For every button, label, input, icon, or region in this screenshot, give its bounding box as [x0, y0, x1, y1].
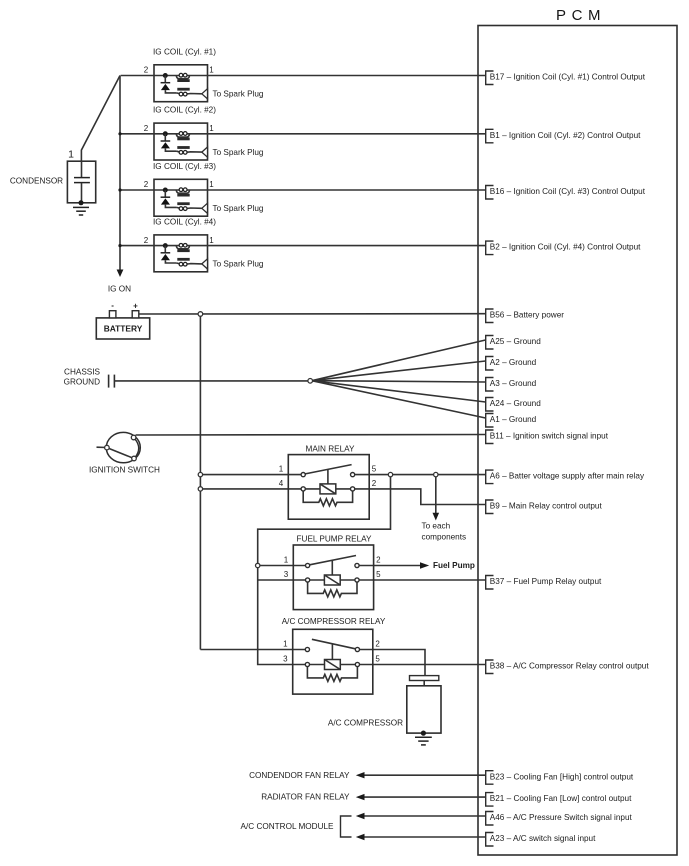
wire: B23 to condendor fan relay — [363, 774, 486, 776]
svg-text:IG COIL (Cyl. #4): IG COIL (Cyl. #4) — [153, 217, 216, 226]
svg-text:2: 2 — [372, 479, 377, 488]
PCM pin A25 — [486, 336, 542, 350]
PCM pin B23 — [486, 771, 634, 785]
battery box — [96, 318, 149, 339]
svg-text:A/C COMPRESSOR: A/C COMPRESSOR — [328, 719, 403, 728]
A/C compressor relay contact blade — [312, 639, 356, 649]
junction on ignition bus — [118, 244, 121, 247]
ignition coil IG COIL (Cyl. #1) with wire to PCM pin — [121, 65, 486, 102]
ignition switch — [97, 446, 107, 448]
wire: A46 from A/C control module — [363, 815, 486, 817]
svg-text:IG COIL (Cyl. #3): IG COIL (Cyl. #3) — [153, 162, 216, 171]
fuel pump relay box — [293, 545, 373, 610]
wire: ignition feed bus — [119, 76, 121, 271]
svg-text:B11 – Ignition switch signal i: B11 – Ignition switch signal input — [490, 432, 609, 441]
svg-text:A/C CONTROL MODULE: A/C CONTROL MODULE — [241, 822, 334, 831]
main relay resistor — [303, 491, 352, 506]
svg-text:GROUND: GROUND — [64, 378, 100, 387]
svg-text:A2 – Ground: A2 – Ground — [490, 358, 537, 367]
svg-text:1: 1 — [68, 149, 74, 161]
svg-text:2: 2 — [375, 640, 380, 649]
junction on A6 line — [388, 472, 392, 476]
svg-text:1: 1 — [279, 465, 284, 474]
A/C control module bracket — [341, 816, 352, 837]
svg-text:BATTERY: BATTERY — [104, 324, 143, 334]
PCM pin B56 — [486, 309, 565, 323]
svg-text:MAIN RELAY: MAIN RELAY — [306, 445, 356, 454]
wire: A/C relay pin2 to compressor — [357, 650, 425, 676]
svg-text:A6 – Batter voltage supply aft: A6 – Batter voltage supply after main re… — [490, 472, 645, 481]
svg-text:2: 2 — [376, 556, 381, 565]
PCM pin B17 — [486, 71, 646, 85]
svg-text:B23 – Cooling Fan [High] contr: B23 – Cooling Fan [High] control output — [490, 772, 634, 781]
svg-text:A/C COMPRESSOR RELAY: A/C COMPRESSOR RELAY — [282, 617, 386, 626]
ignition coil IG COIL (Cyl. #2) with wire to PCM pin — [121, 123, 486, 160]
svg-text:IG COIL (Cyl. #2): IG COIL (Cyl. #2) — [153, 106, 216, 115]
svg-text:+: + — [133, 302, 138, 311]
ignition coil IG COIL (Cyl. #4) with wire to PCM pin — [121, 235, 486, 272]
wire: A23 from A/C control module — [363, 836, 486, 838]
wire: main relay pin2 to B9 — [353, 489, 486, 505]
svg-text:To each: To each — [422, 522, 451, 531]
main relay coil row wires — [303, 488, 320, 490]
svg-text:4: 4 — [279, 479, 284, 488]
svg-text:CHASSIS: CHASSIS — [64, 367, 100, 376]
svg-text:3: 3 — [283, 655, 288, 664]
fuel pump relay resistor — [308, 582, 357, 597]
junction battery — [198, 312, 203, 317]
svg-text:B21 – Cooling Fan [Low] contro: B21 – Cooling Fan [Low] control output — [490, 794, 632, 803]
IG ON arrow — [117, 270, 124, 278]
PCM pin A24 — [486, 398, 542, 412]
svg-text:FUEL PUMP RELAY: FUEL PUMP RELAY — [297, 535, 372, 544]
PCM pin A6 — [486, 470, 645, 484]
A/C compressor relay coil — [325, 660, 341, 670]
svg-text:B9 – Main Relay control output: B9 – Main Relay control output — [490, 502, 603, 511]
wire: fuel pump relay pin2 to fuel pump — [357, 565, 421, 567]
fuel pump relay coil row wires — [308, 579, 325, 581]
junction at fuel pump pin1 feed — [256, 563, 260, 567]
svg-text:Fuel Pump: Fuel Pump — [433, 561, 475, 570]
PCM pin B38 — [486, 660, 650, 674]
PCM pin B2 — [486, 241, 641, 255]
main relay contact blade — [305, 465, 351, 474]
svg-text:1: 1 — [284, 556, 289, 565]
svg-text:A24 – Ground: A24 – Ground — [490, 399, 541, 408]
main relay box — [288, 455, 369, 520]
svg-text:B2 – Ignition Coil (Cyl. #4) C: B2 – Ignition Coil (Cyl. #4) Control Out… — [490, 243, 641, 252]
ignition coil IG COIL (Cyl. #3) with wire to PCM pin — [121, 179, 486, 216]
PCM pin B11 — [486, 430, 609, 444]
svg-text:B38 – A/C Compressor Relay con: B38 – A/C Compressor Relay control outpu… — [490, 662, 650, 671]
fuel pump relay terminals — [306, 563, 310, 567]
wire: battery bus to A/C relay pin 1 — [200, 649, 307, 651]
PCM pin B37 — [486, 576, 602, 590]
svg-text:components: components — [422, 532, 467, 541]
PCM pin A46 — [486, 812, 633, 826]
wire: chassis ground to fan point — [114, 380, 308, 382]
wire: bus to main relay pin 1 — [200, 474, 303, 476]
wire: to each components arrow — [435, 475, 437, 514]
fuel pump relay coil — [324, 575, 340, 585]
svg-text:IG COIL (Cyl. #1): IG COIL (Cyl. #1) — [153, 47, 216, 56]
svg-text:5: 5 — [376, 570, 381, 579]
junction on ignition bus — [118, 188, 121, 191]
svg-text:B17 – Ignition Coil (Cyl. #1): B17 – Ignition Coil (Cyl. #1) Control Ou… — [490, 73, 646, 82]
svg-text:A23 – A/C switch signal input: A23 – A/C switch signal input — [490, 834, 596, 843]
wire: diagonal to condensor — [81, 76, 120, 162]
svg-text:RADIATOR FAN RELAY: RADIATOR FAN RELAY — [261, 793, 350, 802]
svg-text:A1 – Ground: A1 – Ground — [490, 415, 537, 424]
battery terminals — [109, 311, 116, 318]
wire: battery power to B56 — [139, 313, 486, 315]
svg-text:1: 1 — [283, 640, 288, 649]
PCM pin B1 — [486, 129, 641, 143]
wire: bus to main relay pin 4 — [200, 488, 303, 490]
main relay coil — [320, 484, 336, 494]
A/C compressor relay resistor — [307, 667, 357, 682]
condensor ground — [79, 200, 84, 205]
ground fan-out — [312, 340, 486, 381]
compressor ground — [421, 731, 426, 736]
svg-text:3: 3 — [284, 570, 289, 579]
wire: A/C relay pin5 to B38 — [357, 664, 485, 666]
PCM pin A23 — [486, 833, 596, 847]
wire: after-main-relay feed down-left to fuel pump relay — [258, 475, 391, 665]
A/C compressor connector cap — [410, 676, 439, 681]
svg-text:B1 – Ignition Coil (Cyl. #2) C: B1 – Ignition Coil (Cyl. #2) Control Out… — [490, 131, 641, 140]
A/C compressor body — [407, 686, 441, 733]
wire: feed to fuel pump relay pin 1 — [258, 565, 308, 567]
svg-text:A3 – Ground: A3 – Ground — [490, 379, 537, 388]
svg-text:A25 – Ground: A25 – Ground — [490, 337, 541, 346]
junction on ignition bus — [118, 132, 121, 135]
wire: fuel pump relay pin5 to B37 — [357, 579, 486, 581]
wire: main relay pin5 to A6 — [353, 474, 486, 476]
battery bus down — [199, 314, 201, 650]
PCM pin A1 — [486, 414, 537, 428]
condensor C1 box — [67, 161, 95, 203]
A/C compressor relay box — [293, 629, 373, 694]
main relay terminals — [301, 473, 305, 477]
svg-text:A46 – A/C Pressure Switch sign: A46 – A/C Pressure Switch signal input — [490, 813, 633, 822]
PCM pin B21 — [486, 793, 632, 807]
chassis ground symbol — [108, 375, 110, 388]
junctions on battery bus — [198, 472, 202, 476]
svg-text:CONDENDOR FAN RELAY: CONDENDOR FAN RELAY — [249, 771, 350, 780]
svg-text:5: 5 — [375, 655, 380, 664]
svg-text:-: - — [111, 301, 114, 310]
svg-text:IGNITION SWITCH: IGNITION SWITCH — [89, 466, 160, 475]
svg-text:PCM: PCM — [556, 7, 606, 24]
PCM pin A3 — [486, 378, 537, 392]
svg-text:5: 5 — [372, 465, 377, 474]
svg-text:B16 – Ignition Coil (Cyl. #3): B16 – Ignition Coil (Cyl. #3) Control Ou… — [490, 187, 646, 196]
PCM pin A2 — [486, 357, 537, 371]
svg-text:B37 – Fuel Pump Relay output: B37 – Fuel Pump Relay output — [490, 577, 602, 586]
fuel pump relay contact blade — [310, 556, 356, 565]
A/C compressor relay coil row wires — [307, 664, 324, 666]
A/C compressor relay terminals — [305, 647, 309, 651]
wire: feed to fuel pump relay pin 3 — [258, 579, 308, 581]
svg-text:IG ON: IG ON — [108, 285, 131, 294]
wire: B21 to radiator fan relay — [363, 796, 486, 798]
fan point junction — [308, 379, 313, 384]
PCM pin B9 — [486, 500, 603, 514]
PCM pin B16 — [486, 186, 646, 200]
capacitor plates — [81, 161, 83, 177]
svg-text:CONDENSOR: CONDENSOR — [10, 177, 63, 186]
PCM module box — [478, 26, 677, 856]
svg-text:B56 – Battery power: B56 – Battery power — [490, 311, 564, 320]
